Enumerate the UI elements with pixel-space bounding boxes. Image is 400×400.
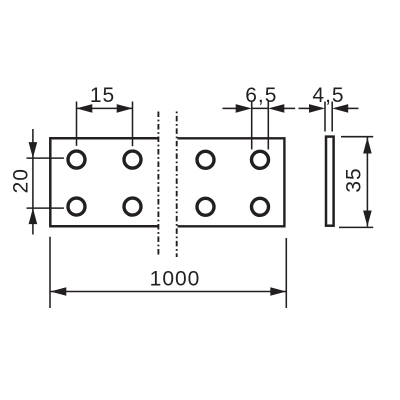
dimension 20 arrow bottom: [29, 208, 38, 224]
dimension 1000 arrow left: [50, 287, 66, 296]
dimension 1000 extension line left: [49, 237, 51, 308]
dimension 4,5 tail right: [348, 107, 359, 109]
dimension 15 arrow right: [117, 104, 133, 113]
dimension 6,5 arrow left: [236, 104, 252, 113]
dimension 1000 line: [50, 291, 286, 293]
svg-text:35: 35: [343, 167, 366, 192]
plate front view right section outline: [178, 138, 285, 226]
dimension 1000 arrow right: [270, 287, 286, 296]
svg-text:20: 20: [9, 168, 32, 193]
dimension 6,5 line between: [252, 107, 269, 109]
plate front view left section outline: [50, 138, 157, 226]
svg-text:15: 15: [90, 84, 115, 107]
dimension 6,5 extension line left: [251, 102, 253, 150]
hole H7 bottom third: [197, 198, 214, 215]
dimension 4,5 arrow right: [332, 104, 348, 113]
dimension 35 line vertical: [366, 138, 368, 227]
dimension 4,5 extension line right: [331, 102, 333, 132]
dimension 35 extension line top: [341, 136, 373, 138]
hole H4 top-right: [252, 151, 269, 168]
svg-text:4,5: 4,5: [312, 84, 344, 107]
dimension 4,5 tail left: [299, 107, 310, 109]
dimension 6,5 extension line right: [267, 102, 269, 150]
hole H6 bottom second: [124, 198, 141, 215]
svg-text:1000: 1000: [150, 268, 201, 291]
hole H1 top-left: [68, 151, 85, 168]
hole H8 bottom-right: [252, 198, 269, 215]
svg-text:6,5: 6,5: [245, 84, 277, 107]
hole H2 top second: [124, 151, 141, 168]
break center line right: [176, 112, 178, 258]
dimension 35 extension line bottom: [339, 226, 373, 228]
dimension 6,5 arrow right: [268, 104, 284, 113]
dimension 6,5 tail right: [284, 107, 295, 109]
dimension 15 arrow left: [76, 104, 92, 113]
dimension 6,5 tail left: [223, 107, 237, 109]
dimension 15 line: [77, 107, 133, 109]
dimension 1000 extension line right: [285, 238, 287, 308]
dimension 20 extension line top: [27, 157, 64, 159]
dimension 20 arrow top: [29, 142, 38, 158]
dimension 35 arrow bottom: [363, 211, 372, 227]
dimension 4,5 arrow left: [309, 104, 325, 113]
dimension 4,5 extension line left: [324, 102, 326, 132]
dimension 15 extension line right: [132, 102, 134, 147]
dimension 20 extension line bottom: [27, 207, 64, 209]
hole H5 bottom-left: [68, 198, 85, 215]
dimension 20 line vertical: [32, 129, 34, 235]
side view plate outline: [326, 137, 334, 226]
hole H3 top third: [197, 151, 214, 168]
dimension 15 extension line left: [76, 102, 78, 146]
break center line left: [157, 112, 159, 258]
dimension 35 arrow top: [363, 138, 372, 154]
